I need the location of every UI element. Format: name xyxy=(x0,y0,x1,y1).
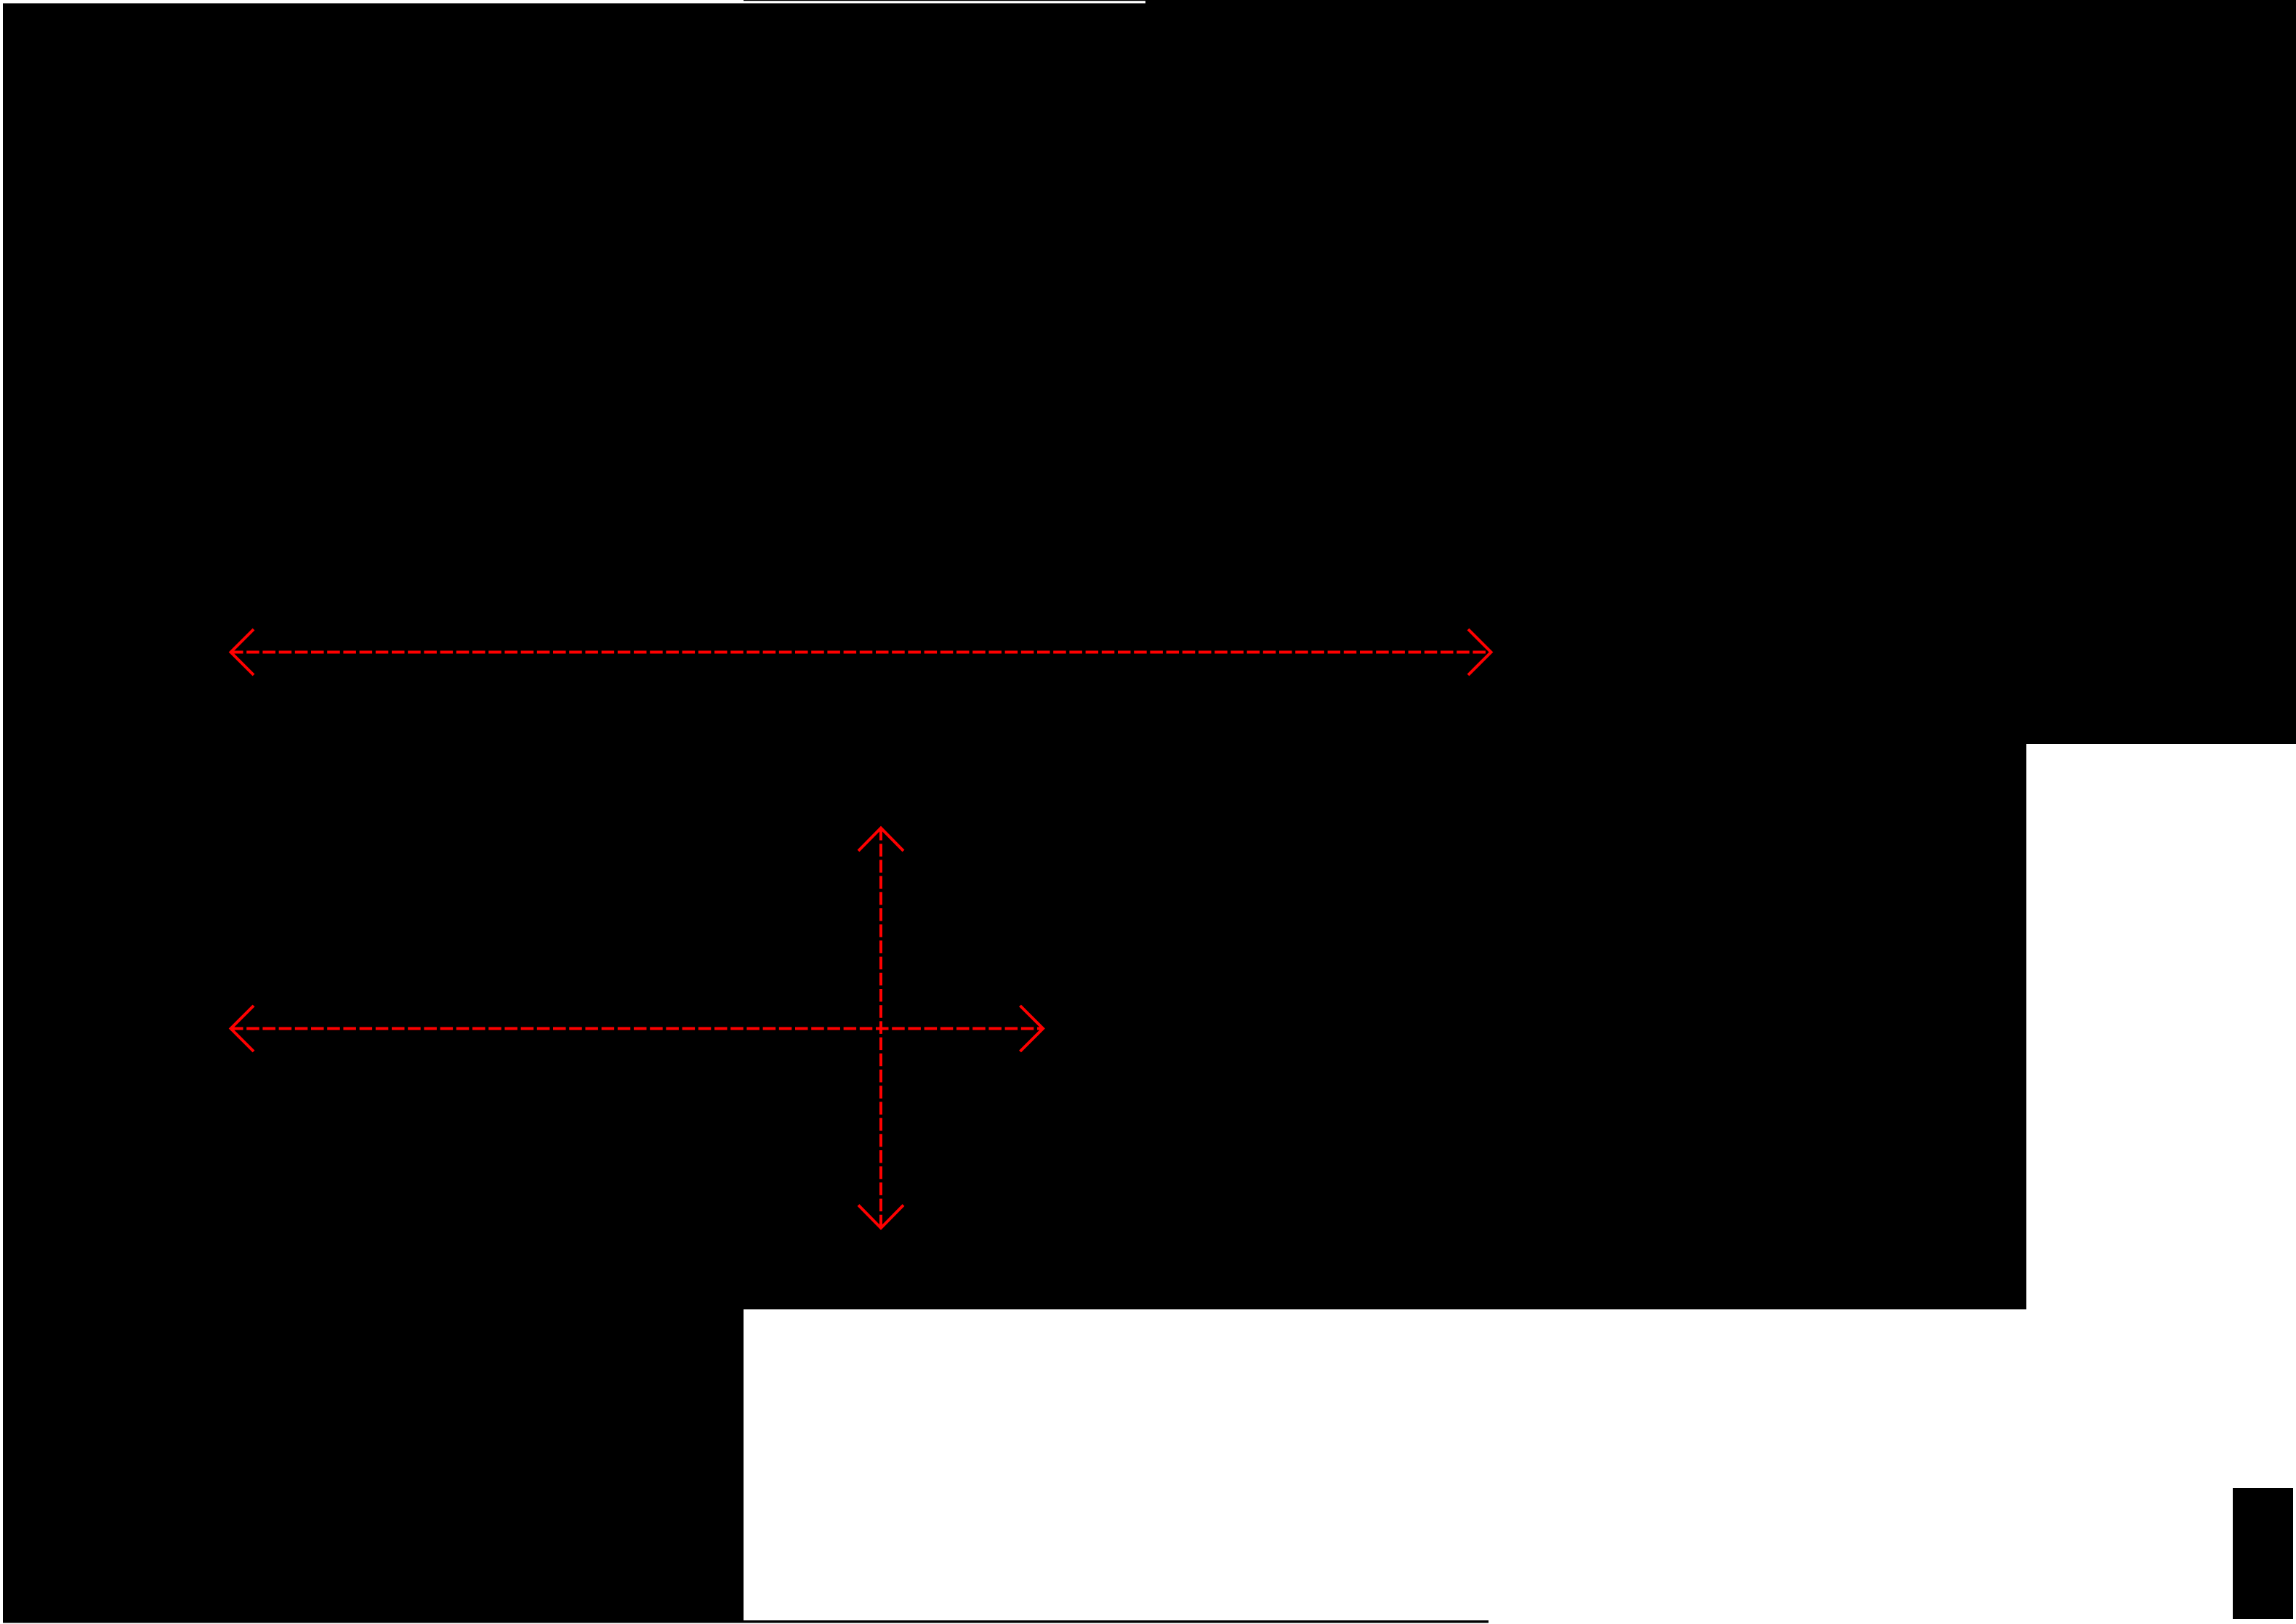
dimension arrow A3 (vertical, dashed red) xyxy=(858,828,903,1228)
thin black baseline at bottom xyxy=(3,1620,1489,1623)
thin black line on top edge xyxy=(744,0,1147,1)
dimension arrow A2 (short horizontal, dashed red) xyxy=(230,1006,1043,1051)
black rectangle (bottom right) xyxy=(2233,1488,2293,1619)
dimension arrow A1 (long horizontal, dashed red) xyxy=(230,629,1491,675)
